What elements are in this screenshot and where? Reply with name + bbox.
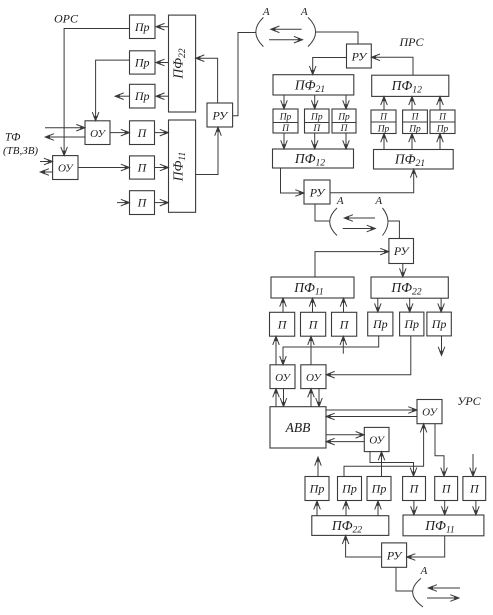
svg-text:Пр: Пр [408,125,421,135]
wire Пр2 to ОУ1 [96,60,130,120]
box ОУ4 (УРС terminal equipment 4) [364,427,389,451]
wire antenna A1 to РУ1 [233,33,256,116]
svg-text:УРС: УРС [457,394,481,408]
wire РУ2 to antenna A2 [315,204,329,221]
box ОУ3 (УРС terminal equipment 3) [417,400,442,424]
wire П1 to ПФ11 mid [282,299,284,313]
svg-text:Пр: Пр [337,113,350,123]
svg-text:П: П [308,317,319,331]
wire ПФ21 to Пр/П 3 [345,95,347,109]
svg-text:РУ: РУ [386,548,403,562]
wire П/Пр 1 to ПФ12 [383,97,385,110]
wire ТФ input to ОУ1 [45,127,85,129]
wire ПФ22 bottom to Пр1 [316,501,318,515]
box ПФ21 (ПРС filter lower right) [374,150,454,170]
wire ПФ22 mid to Пр1 [377,298,379,311]
wire Пр2 mid to ОУ2 [327,336,411,375]
wire АВВ to ОУ1 [275,389,277,407]
box П/Пр stacked 3 (ПРС right) [430,110,455,134]
svg-text:РУ: РУ [393,244,410,258]
wire П/Пр 2 to ПФ12 [411,97,413,110]
box РУ1 (ОРС duplexer) [207,103,233,127]
box Пр/П stacked 3 (ПРС left) [332,109,356,133]
box П3 (УРС bottom transmitter 3) [463,477,486,501]
svg-text:ОУ: ОУ [369,435,385,447]
svg-text:А: А [420,565,428,577]
box Пр2 (ОРС receiver 2) [130,51,156,74]
wire АВВ to ОУ3 [326,409,417,411]
box П1 (УРС bottom transmitter 1) [403,477,426,501]
antenna A2 left arc [330,208,337,236]
wire Пр1 bottom to АВВ [317,458,319,478]
wire Пр1 mid to ОУ1 [283,336,379,364]
box ПФ12 (ПРС filter lower left) [273,149,354,168]
svg-text:П: П [441,482,452,496]
box П/Пр stacked 1 (ПРС right) [371,110,396,134]
box ПФ22 (УРС mid filter right) [371,277,448,298]
wire ОУ4 to П1 bottom [370,452,414,476]
wire П1 to ПФ11 [155,132,169,134]
svg-text:Пр: Пр [279,113,292,123]
wire ПФ22 mid to Пр3 [440,298,442,311]
box ПФ11 (ОРС bandpass filter, tall) [169,120,196,212]
antenna A1 arrow right [269,39,302,41]
wire ТФ output from ОУ2 [41,171,53,173]
svg-text:Пр: Пр [134,20,150,34]
svg-text:ОРС: ОРС [54,11,79,25]
wire ОУ2 to АВВ [318,389,320,407]
wire ТФ input to ОУ2 [40,161,52,163]
box П3 (УРС mid transmitter 3) [332,312,357,336]
wire РУ2а to ПФ21 [313,58,347,75]
box П2 (УРС mid transmitter 2) [301,312,326,336]
box Пр2 (УРС mid receiver 2) [400,312,424,336]
box Пр2 (УРС bottom receiver 2) [338,477,362,501]
svg-text:Пр: Пр [403,317,419,331]
box П/Пр stacked 2 (ПРС right) [403,110,428,134]
wire ПФ21 lower to П/Пр 3 [439,134,441,150]
wire П2 to ПФ11 bottom [444,501,446,515]
wire П2 to ПФ11 [155,167,169,169]
wire П2 to ПФ11 mid [312,299,314,313]
wire ПФ21 to Пр/П 2 [314,95,316,109]
svg-text:Пр: Пр [372,317,388,331]
antenna A1 arrow left [271,28,301,30]
box РУ2 (ПРС duplexer bottom) [304,180,330,204]
svg-text:РУ: РУ [309,185,326,199]
svg-text:РУ: РУ [212,108,229,122]
wire ПФ22 bottom to Пр2 [345,501,347,515]
svg-text:П: П [137,161,148,175]
svg-text:А: А [374,195,382,207]
box Пр1 (УРС mid receiver 1) [368,312,393,336]
svg-text:П: П [312,124,321,134]
svg-text:А: А [300,6,308,18]
antenna A2 arrow right [343,228,375,230]
wire Пр/П 1 to ПФ12 lower [283,133,285,149]
svg-text:ПРС: ПРС [399,35,425,49]
box Пр/П stacked 1 (ПРС left) [273,109,298,133]
wire Пр/П 3 to ПФ12 lower [345,133,347,149]
box П2 (ОРС transmitter 2) [130,156,155,179]
wire input to П3 bottom [472,454,474,476]
wire input to П3 [117,202,129,204]
svg-text:П: П [277,317,288,331]
box ПФ21 (ПРС filter top left) [273,75,354,95]
wire Пр3 bottom to ОУ4 [381,452,383,477]
wire АВВ to ОУ2 [310,389,312,407]
antenna A2 arrow left [345,217,375,219]
wire ТФ output from ОУ1 [46,136,85,138]
wire П1 to ПФ11 bottom [413,501,415,515]
svg-text:П: П [409,482,420,496]
svg-text:П: П [379,113,388,123]
wire Пр2 bottom to ОУ3 [344,424,424,477]
antenna A1 right arc [308,17,316,46]
svg-text:АВВ: АВВ [285,420,311,435]
svg-text:ОУ: ОУ [306,372,322,384]
svg-text:Пр: Пр [134,56,150,70]
wire РУ1 to ПФ22 [196,58,218,103]
svg-text:П: П [340,124,349,134]
svg-text:Пр: Пр [371,482,387,496]
antenna A2 right arc [383,208,389,236]
svg-text:Пр: Пр [309,482,325,496]
wire ПФ12 to РУ2а [372,57,413,75]
wire ОУ3 to АВВ [327,416,418,418]
wire ПФ21 lower to П/Пр 1 [383,134,385,150]
antenna A3 arrow right [427,597,459,599]
box ОУ2 (ОРС terminal equipment 2) [53,156,78,180]
box Пр1 (ОРС receiver 1) [130,15,156,39]
wire ПФ22 bottom to Пр3 [377,501,379,515]
wire П3 to ПФ11 [155,202,169,204]
svg-text:Пр: Пр [310,113,323,123]
box АВВ (input-output unit) [270,407,326,448]
wire ОУ3 to П2 bottom [435,424,444,476]
wire ПФ11 bottom to РУ4 [407,536,445,557]
wire ПФ22 to Пр2 [156,62,168,64]
svg-text:ОУ: ОУ [90,128,106,140]
box РУ4 (УРС duplexer bottom) [382,543,407,567]
svg-text:ТФ: ТФ [5,132,20,144]
box Пр/П stacked 2 (ПРС left) [305,109,330,133]
svg-text:(ТВ,ЗВ): (ТВ,ЗВ) [3,145,38,157]
svg-text:А: А [262,6,270,18]
svg-text:П: П [137,126,148,140]
box ПФ12 (ПРС filter top right) [372,75,449,96]
box ПФ22 (УРС bottom filter left) [312,516,389,536]
box П2 (УРС bottom transmitter 2) [435,477,458,501]
antenna A1 left arc [256,17,264,46]
box ПФ11 (УРС mid filter left) [271,277,354,298]
wire Пр/П 2 to ПФ12 lower [314,133,316,149]
svg-text:Пр: Пр [377,125,390,135]
box ОУ1 (УРС mid terminal equipment 1) [270,365,295,389]
wire РУ4 to ПФ22 bottom [346,536,382,557]
svg-text:П: П [438,113,447,123]
box ПФ11 (УРС bottom filter right) [403,515,484,536]
svg-text:ОУ: ОУ [422,407,438,419]
box Пр3 (УРС mid receiver 3) [427,312,451,336]
svg-text:Пр: Пр [431,317,447,331]
svg-text:Пр: Пр [341,482,357,496]
wire Пр1 to ОУ2 [64,29,129,156]
wire Пр3 mid output down [441,336,443,355]
wire П/Пр 3 to ПФ12 [439,97,441,110]
box ОУ2 (УРС mid terminal equipment 2) [301,365,326,389]
wire ПФ12 lower to РУ2 [281,168,304,193]
box П1 (УРС mid transmitter 1) [270,312,295,336]
wire Пр3 output left [116,95,130,97]
svg-text:П: П [339,317,350,331]
svg-text:П: П [411,113,420,123]
wire antenna A1 to РУ2а [316,32,358,44]
wire РУ4 to antenna A3 [396,567,412,591]
box Пр1 (УРС bottom receiver 1) [305,477,329,501]
wire ОУ1 to АВВ [283,389,285,407]
wire ПФ11 mid to РУ3 [315,252,388,277]
wire ПФ21 lower to П/Пр 2 [411,134,413,150]
svg-text:РУ: РУ [351,49,368,63]
wire РУ3 to ПФ22 mid [402,264,404,277]
wire ОУ4 to АВВ [327,441,365,443]
box П1 (ОРС transmitter 1) [130,121,155,145]
wire ОУ1 to П1 [110,132,129,134]
wire ПФ11 to РУ1 [196,128,218,175]
wire ПФ22 to Пр1 [156,26,168,28]
box Пр3 (УРС bottom receiver 3) [367,477,391,501]
wire ПФ21 to Пр/П 1 [283,95,285,109]
antenna A3 arrow left [429,587,460,589]
box Пр3 (ОРС receiver 3) [130,84,156,108]
svg-text:ОУ: ОУ [275,372,291,384]
svg-text:ОУ: ОУ [58,163,74,175]
box РУ2а (ПРС duplexer top) [347,44,372,68]
box РУ3 (УРС duplexer, direction 2) [389,239,414,264]
svg-text:А: А [336,195,344,207]
wire ПФ22 mid to Пр2 [409,298,411,311]
wire АВВ to ОУ4 [326,434,364,436]
wire П3 to ПФ11 bottom [475,501,477,515]
svg-text:П: П [137,196,148,210]
box ОУ1 (ОРС terminal equipment 1) [85,121,110,145]
wire input to П3 mid [342,337,344,354]
svg-text:П: П [469,482,480,496]
wire РУ2 to ПФ21 lower [330,170,414,193]
wire ПФ22 to Пр3 [156,95,168,97]
wire ОУ2 to П2 [78,167,129,169]
antenna A3 arc [413,578,423,607]
wire antenna A2 to РУ3 [388,221,399,238]
box ПФ22 (ОРС bandpass filter, tall) [169,15,196,112]
svg-text:Пр: Пр [436,125,449,135]
wire П3 to ПФ11 mid [343,299,345,313]
svg-text:П: П [281,124,290,134]
wire ОУ1 to П1 mid [275,337,277,365]
box П3 (ОРС transmitter 3) [130,191,155,215]
wire ОУ2 to П2 mid [310,337,312,365]
svg-text:Пр: Пр [134,89,150,103]
